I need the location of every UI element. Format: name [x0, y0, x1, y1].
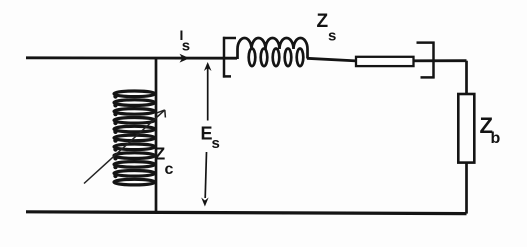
svg-text:b: b — [491, 130, 501, 147]
wire top right segment — [307, 58, 467, 61]
wire right vertical drop — [465, 61, 468, 95]
bracket left of series branch — [223, 37, 236, 78]
shunt coil left-end knobs — [113, 94, 117, 178]
resistor Zb box — [458, 94, 474, 163]
inductor Zc shunt coil turns — [114, 91, 155, 185]
arrow Is on top wire — [180, 54, 190, 63]
arrow pointing into Zc coil — [84, 110, 165, 184]
svg-text:s: s — [212, 135, 220, 152]
svg-text:c: c — [165, 161, 174, 178]
wire vertical shunt branch — [155, 58, 158, 214]
wire Zb to bottom line — [465, 162, 468, 214]
svg-text:s: s — [328, 27, 336, 44]
wire bottom horizontal line — [26, 212, 467, 214]
arrow Es double-headed — [201, 62, 211, 207]
svg-text:s: s — [182, 38, 190, 55]
resistor series box — [356, 57, 414, 66]
wire top horizontal line — [26, 56, 237, 59]
svg-text:Z: Z — [317, 11, 329, 32]
bracket right of series branch — [417, 42, 435, 79]
inductor Zs series coil — [238, 38, 308, 66]
